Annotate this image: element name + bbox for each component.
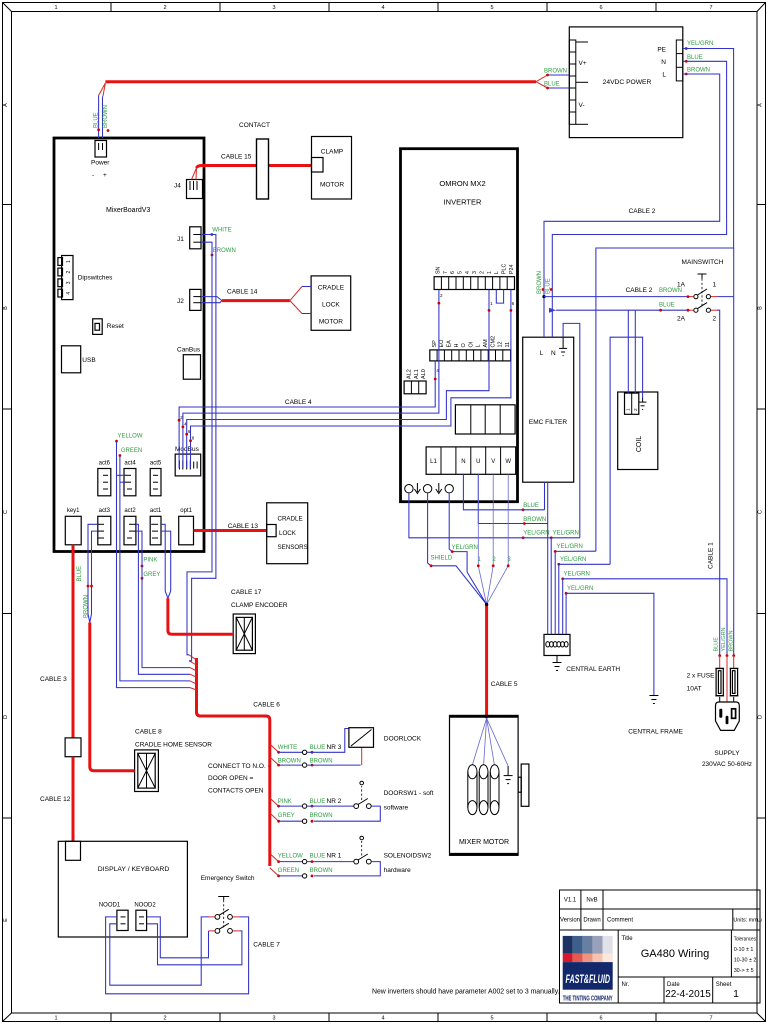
wire L brown xyxy=(544,74,720,337)
svg-text:FAST&FLUID: FAST&FLUID xyxy=(566,972,611,986)
svg-text:YEL/GRN: YEL/GRN xyxy=(553,531,579,537)
doorlock xyxy=(349,728,422,748)
svg-text:1: 1 xyxy=(733,989,739,1000)
svg-text:Version: Version xyxy=(560,918,580,924)
svg-text:BROWN: BROWN xyxy=(103,105,109,128)
svg-text:L: L xyxy=(540,350,544,357)
svg-text:C: C xyxy=(758,510,764,514)
svg-text:CanBus: CanBus xyxy=(177,347,201,354)
svg-text:SN: SN xyxy=(436,266,442,274)
svg-text:BROWN: BROWN xyxy=(310,813,333,819)
svg-text:B: B xyxy=(758,306,764,310)
svg-text:4: 4 xyxy=(381,1016,384,1022)
svg-text:NR 3: NR 3 xyxy=(327,744,342,751)
emc ground loop xyxy=(563,323,580,537)
svg-text:BLUE: BLUE xyxy=(77,566,83,582)
svg-text:1: 1 xyxy=(487,271,493,274)
svg-text:MOTOR: MOTOR xyxy=(320,182,344,189)
svg-text:CENTRAL EARTH: CENTRAL EARTH xyxy=(566,666,620,673)
svg-text:DOOR OPEN =: DOOR OPEN = xyxy=(208,775,254,782)
svg-text:P24: P24 xyxy=(509,265,515,274)
svg-text:4: 4 xyxy=(66,292,72,295)
tiny pin number labels xyxy=(180,293,515,441)
svg-text:GREY: GREY xyxy=(278,813,295,819)
svg-text:BROWN: BROWN xyxy=(659,288,682,294)
wire nood1 pin2 to pole1 left xyxy=(110,917,209,985)
brown U wire xyxy=(478,474,547,523)
inverter bottom wires xyxy=(409,474,551,606)
svg-text:2: 2 xyxy=(480,271,486,274)
svg-text:act3: act3 xyxy=(99,508,111,514)
svg-text:BROWN: BROWN xyxy=(728,630,734,651)
connector J2 xyxy=(177,289,201,310)
svg-text:YEL/GRN: YEL/GRN xyxy=(557,544,583,550)
svg-text:30-> ± 5: 30-> ± 5 xyxy=(734,968,754,974)
connector CanBus xyxy=(177,347,201,380)
doorlock row NR 3 xyxy=(277,729,362,768)
svg-text:E: E xyxy=(3,918,9,922)
svg-text:Title: Title xyxy=(622,936,634,942)
inverter U2 OMRON MX2 xyxy=(401,149,518,502)
svg-text:2: 2 xyxy=(163,5,166,11)
wire nood1 pin1 to pole1 right xyxy=(106,917,249,994)
svg-text:BROWN: BROWN xyxy=(278,759,301,765)
wire 2 xyxy=(183,290,439,469)
svg-text:PE: PE xyxy=(657,47,666,54)
board bottom edge cross wires top stubs xyxy=(150,523,152,525)
connector act3 xyxy=(98,508,111,545)
svg-text:A: A xyxy=(758,103,764,107)
svg-text:Dipswitches: Dipswitches xyxy=(78,275,113,282)
svg-text:DOORSW1 - soft: DOORSW1 - soft xyxy=(384,790,434,797)
inverter second terminal row xyxy=(430,336,511,361)
mixer board U1 MixerBoardV3 xyxy=(54,138,204,552)
svg-text:SHIELD: SHIELD xyxy=(431,556,453,562)
cable 2 labels xyxy=(629,208,656,215)
svg-text:YELLOW: YELLOW xyxy=(118,434,143,440)
side ruler ticks xyxy=(3,204,12,206)
svg-text:A: A xyxy=(3,103,9,107)
svg-text:J1: J1 xyxy=(177,236,184,243)
svg-text:Units: mm: Units: mm xyxy=(733,918,758,924)
svg-text:1: 1 xyxy=(54,1016,57,1022)
svg-text:MIXER MOTOR: MIXER MOTOR xyxy=(459,839,509,846)
mixer motor xyxy=(450,715,529,855)
svg-text:act1: act1 xyxy=(150,508,162,514)
cable 4 modbus-inverter wires xyxy=(178,290,513,469)
svg-text:GA480 Wiring: GA480 Wiring xyxy=(641,948,709,960)
main red 24v cable xyxy=(105,69,569,90)
svg-text:10-30 ± 2: 10-30 ± 2 xyxy=(734,958,757,964)
clamp encoder xyxy=(233,614,255,654)
fuse 1 xyxy=(716,669,723,696)
svg-text:24VDC POWER: 24VDC POWER xyxy=(603,79,652,86)
wire brown to mainswitch pole1 xyxy=(542,248,733,298)
svg-text:YEL/GRN: YEL/GRN xyxy=(523,531,549,537)
svg-text:D: D xyxy=(758,715,764,719)
central earth xyxy=(544,634,620,673)
svg-text:Comment: Comment xyxy=(607,918,633,924)
emergency switch xyxy=(201,875,255,933)
doorsw1 row NR 2 xyxy=(277,781,433,823)
svg-text:BLUE: BLUE xyxy=(94,112,100,128)
svg-text:V+: V+ xyxy=(579,60,587,67)
cable 15 xyxy=(192,154,312,180)
wire nood2 pin1 to pole2 left xyxy=(147,917,209,958)
svg-text:opt1: opt1 xyxy=(180,508,192,514)
svg-text:CABLE 12: CABLE 12 xyxy=(40,796,71,803)
svg-text:Drawn: Drawn xyxy=(583,918,600,924)
svg-text:0-10 ± 1: 0-10 ± 1 xyxy=(734,947,754,953)
svg-text:N: N xyxy=(551,350,556,357)
svg-text:act4: act4 xyxy=(124,461,136,467)
svg-text:BROWN: BROWN xyxy=(544,69,567,75)
svg-text:YELLOW: YELLOW xyxy=(278,854,303,860)
svg-text:AL0: AL0 xyxy=(421,369,427,379)
svg-text:BLUE: BLUE xyxy=(544,82,560,88)
svg-text:V-: V- xyxy=(579,102,585,109)
wire 4 xyxy=(191,290,511,469)
cable 7 xyxy=(106,917,281,994)
note text xyxy=(372,989,560,996)
svg-text:CABLE 3: CABLE 3 xyxy=(40,676,67,683)
connector J1 xyxy=(177,227,201,249)
svg-text:11: 11 xyxy=(505,342,511,348)
svg-text:10AT: 10AT xyxy=(687,686,702,693)
act3 wires to home sensor cable xyxy=(77,524,98,622)
svg-text:O: O xyxy=(461,343,467,348)
svg-text:BROWN: BROWN xyxy=(523,517,546,523)
svg-text:6: 6 xyxy=(450,271,456,274)
svg-text:USB: USB xyxy=(82,357,95,364)
contact element xyxy=(239,122,270,199)
svg-text:Date: Date xyxy=(667,982,680,988)
svg-text:DISPLAY / KEYBOARD: DISPLAY / KEYBOARD xyxy=(98,866,170,873)
clamp motor xyxy=(312,137,352,200)
svg-text:J2: J2 xyxy=(177,298,184,305)
svg-text:230VAC 50-60Hz: 230VAC 50-60Hz xyxy=(702,761,752,768)
svg-text:CABLE 2: CABLE 2 xyxy=(626,287,653,294)
svg-text:act2: act2 xyxy=(124,508,136,514)
cable 13 to cradle lock sensors xyxy=(194,523,268,531)
svg-text:CONNECT TO N.O. =: CONNECT TO N.O. = xyxy=(208,763,272,770)
svg-text:B: B xyxy=(3,306,9,310)
svg-text:Sheet: Sheet xyxy=(716,982,732,988)
yel/grn from gnd circle1 xyxy=(409,493,551,538)
svg-text:YEL/GRN: YEL/GRN xyxy=(687,41,713,47)
svg-text:EA: EA xyxy=(447,340,453,348)
24vdc power supply xyxy=(569,27,683,138)
svg-text:3: 3 xyxy=(66,281,72,284)
U V W wires to cable5 xyxy=(487,474,494,604)
svg-text:CENTRAL FRAME: CENTRAL FRAME xyxy=(628,729,683,736)
svg-text:BLUE: BLUE xyxy=(545,278,551,294)
svg-text:1: 1 xyxy=(66,260,72,263)
svg-text:CABLE 4: CABLE 4 xyxy=(285,399,312,406)
wire PE yel/grn xyxy=(596,49,734,552)
red cable to clamp encoder xyxy=(168,598,233,634)
svg-text:D: D xyxy=(3,715,9,719)
svg-text:WHITE: WHITE xyxy=(278,745,297,751)
svg-text:5: 5 xyxy=(490,5,493,11)
cable 12 label xyxy=(40,796,71,803)
svg-text:V1.1: V1.1 xyxy=(564,898,577,904)
svg-text:L: L xyxy=(494,271,500,274)
svg-text:AM: AM xyxy=(483,339,489,348)
svg-text:CLAMP: CLAMP xyxy=(321,149,343,156)
shield wire xyxy=(428,493,487,605)
svg-text:EMC FILTER: EMC FILTER xyxy=(529,419,567,426)
svg-text:W: W xyxy=(505,459,511,465)
svg-text:SOLENOIDSW2: SOLENOIDSW2 xyxy=(384,853,432,860)
svg-text:EO: EO xyxy=(439,339,445,348)
svg-text:NvB: NvB xyxy=(586,898,597,904)
svg-text:LOCK: LOCK xyxy=(322,302,340,309)
connector act4 xyxy=(124,461,136,496)
connector ModBus xyxy=(175,446,201,476)
top ruler ticks xyxy=(110,3,112,12)
svg-text:NR 2: NR 2 xyxy=(327,798,342,805)
svg-text:L: L xyxy=(476,344,482,347)
svg-text:INVERTER: INVERTER xyxy=(444,198,482,207)
svg-text:MAINSWITCH: MAINSWITCH xyxy=(682,259,724,266)
svg-text:GREY: GREY xyxy=(143,572,160,578)
svg-text:THE TINTING COMPANY: THE TINTING COMPANY xyxy=(563,994,613,1003)
inverter ground circles xyxy=(405,483,454,494)
svg-text:CABLE 14: CABLE 14 xyxy=(227,289,258,296)
connector act6 xyxy=(98,461,111,496)
svg-text:5: 5 xyxy=(458,271,464,274)
cable 3 label xyxy=(40,676,67,683)
connector key1 xyxy=(65,508,81,545)
mainswitch xyxy=(677,259,724,323)
svg-text:NOOD2: NOOD2 xyxy=(134,903,156,909)
connector Power xyxy=(91,141,110,180)
red cable to cradle home sensor xyxy=(90,623,135,771)
svg-text:CRADLE: CRADLE xyxy=(318,285,345,292)
cable 6 red routing xyxy=(189,655,280,876)
svg-text:YEL/GRN: YEL/GRN xyxy=(560,557,586,563)
svg-text:4: 4 xyxy=(381,5,384,11)
svg-text:Nr.: Nr. xyxy=(622,982,630,988)
wire j2 to cable14 xyxy=(201,297,222,303)
svg-text:CRADLE HOME SENSOR: CRADLE HOME SENSOR xyxy=(135,742,212,749)
svg-text:1: 1 xyxy=(626,408,632,411)
svg-text:CABLE 6: CABLE 6 xyxy=(253,702,280,709)
svg-text:CABLE 13: CABLE 13 xyxy=(228,523,259,530)
yel/grn fan wires xyxy=(522,482,727,695)
svg-text:CRADLE: CRADLE xyxy=(278,516,303,523)
svg-text:-: - xyxy=(92,172,94,179)
svg-text:2: 2 xyxy=(633,408,639,411)
svg-text:2A: 2A xyxy=(677,316,686,323)
svg-text:1: 1 xyxy=(713,282,717,289)
title block xyxy=(560,890,761,1003)
svg-text:software: software xyxy=(384,805,409,812)
svg-text:BLUE: BLUE xyxy=(523,503,539,509)
bottom ruler ticks xyxy=(110,1013,112,1022)
svg-text:2: 2 xyxy=(163,1016,166,1022)
svg-text:C: C xyxy=(3,510,9,514)
wire blue to mainswitch pole2 xyxy=(549,297,734,656)
svg-text:CONTACTS OPEN: CONTACTS OPEN xyxy=(208,788,264,795)
svg-text:PINK: PINK xyxy=(278,799,292,805)
svg-text:CABLE 1: CABLE 1 xyxy=(708,542,715,569)
plug xyxy=(716,702,740,730)
svg-text:act6: act6 xyxy=(99,461,111,467)
cradle lock sensors xyxy=(267,503,308,564)
connect-to note xyxy=(208,763,272,795)
svg-text:YEL/GRN: YEL/GRN xyxy=(721,627,727,651)
svg-text:YEL/GRN: YEL/GRN xyxy=(567,586,593,592)
svg-text:AL1: AL1 xyxy=(414,369,420,379)
cable 17 clamp encoder xyxy=(231,589,288,609)
svg-text:CABLE 5: CABLE 5 xyxy=(491,681,518,688)
svg-text:OMRON MX2: OMRON MX2 xyxy=(439,179,485,188)
svg-text:SP: SP xyxy=(432,340,438,348)
connector act5 xyxy=(150,461,162,496)
svg-text:V: V xyxy=(491,459,495,465)
svg-text:3: 3 xyxy=(272,5,275,11)
svg-text:Power: Power xyxy=(91,160,110,167)
svg-text:U: U xyxy=(476,459,480,465)
svg-text:CABLE 2: CABLE 2 xyxy=(629,208,656,215)
svg-text:WHITE: WHITE xyxy=(212,228,231,234)
svg-text:BLUE: BLUE xyxy=(310,799,326,805)
svg-text:hardware: hardware xyxy=(384,867,411,874)
svg-text:3: 3 xyxy=(472,271,478,274)
connector opt1 xyxy=(179,508,194,545)
cable 1, fuses and supply xyxy=(687,542,752,768)
logo fast&fluid xyxy=(563,936,613,1003)
svg-text:Reset: Reset xyxy=(107,323,124,330)
act2 pink/grey wires xyxy=(136,524,190,674)
svg-text:BLUE: BLUE xyxy=(687,55,703,61)
svg-text:BROWN: BROWN xyxy=(310,759,333,765)
svg-text:Emergency Switch: Emergency Switch xyxy=(201,875,255,882)
svg-text:GREEN: GREEN xyxy=(278,868,299,874)
svg-text:act5: act5 xyxy=(150,461,162,467)
wire j1 white (s-route to cable6) xyxy=(189,235,216,661)
emc filter xyxy=(523,337,574,482)
svg-text:L1: L1 xyxy=(430,459,437,465)
svg-text:YEL/GRN: YEL/GRN xyxy=(452,545,478,551)
yellow/green wires to act4 xyxy=(115,434,190,688)
svg-text:N: N xyxy=(661,59,666,66)
svg-text:CONTACT: CONTACT xyxy=(239,122,270,129)
reset button xyxy=(93,319,124,335)
central frame ground xyxy=(628,696,683,736)
wire 3 xyxy=(187,290,489,469)
blue N wire xyxy=(463,474,544,510)
act1 wires to clamp encoder cable xyxy=(161,524,171,598)
svg-text:N: N xyxy=(461,459,465,465)
svg-text:CABLE 15: CABLE 15 xyxy=(221,154,252,161)
coil wires xyxy=(610,310,643,564)
svg-text:7: 7 xyxy=(443,271,449,274)
svg-text:22-4-2015: 22-4-2015 xyxy=(665,989,711,1000)
svg-text:COIL: COIL xyxy=(636,436,643,452)
svg-text:LOCK: LOCK xyxy=(279,530,297,537)
connector act1 xyxy=(150,508,162,545)
cradle home sensor xyxy=(135,750,159,792)
svg-text:key1: key1 xyxy=(67,508,80,514)
inverter top terminal row xyxy=(434,264,515,290)
coil xyxy=(618,392,658,470)
svg-text:SUPPLY: SUPPLY xyxy=(714,750,740,757)
connector J4 xyxy=(174,180,203,199)
wire N blue xyxy=(552,61,726,296)
svg-text:12: 12 xyxy=(498,341,504,347)
svg-text:2: 2 xyxy=(713,316,717,323)
inverter AL row xyxy=(404,369,427,394)
svg-text:CABLE 8: CABLE 8 xyxy=(135,729,162,736)
svg-text:Tolerances:: Tolerances: xyxy=(734,937,758,943)
cable 8 cradle home sensor xyxy=(135,729,212,749)
svg-text:H: H xyxy=(454,344,460,348)
inverter L-PLC jumper xyxy=(496,290,503,304)
svg-text:BLUE: BLUE xyxy=(659,302,675,308)
svg-text:CABLE 7: CABLE 7 xyxy=(253,942,280,949)
svg-text:7: 7 xyxy=(709,1016,712,1022)
psu right wires (PE N L) xyxy=(544,41,734,551)
svg-text:GREEN: GREEN xyxy=(121,448,142,454)
svg-text:CM2: CM2 xyxy=(490,336,496,348)
yel/grn wire 2 xyxy=(449,493,486,605)
wire 1 xyxy=(179,361,435,468)
svg-text:L: L xyxy=(662,72,666,79)
svg-text:MixerBoardV3: MixerBoardV3 xyxy=(106,207,150,214)
svg-text:+: + xyxy=(103,172,107,179)
display / keyboard xyxy=(58,841,187,937)
svg-text:CABLE 17: CABLE 17 xyxy=(231,589,262,596)
svg-text:NOOD1: NOOD1 xyxy=(99,903,121,909)
connector act2 xyxy=(124,508,136,545)
svg-text:6: 6 xyxy=(599,1016,602,1022)
svg-text:MOTOR: MOTOR xyxy=(319,319,343,326)
svg-text:5: 5 xyxy=(490,1016,493,1022)
svg-text:OI: OI xyxy=(468,341,474,347)
svg-text:J4: J4 xyxy=(174,183,181,190)
svg-text:AL2: AL2 xyxy=(407,369,413,379)
inverter bottom row L1 N U V W xyxy=(426,447,516,474)
j1 white/brown labels xyxy=(210,228,235,257)
wire nood2 pin2 to pole2 right xyxy=(147,924,242,965)
inverter blank row xyxy=(455,405,515,434)
svg-text:BLUE: BLUE xyxy=(714,637,720,652)
cable 14 xyxy=(222,287,302,314)
svg-text:7: 7 xyxy=(709,5,712,11)
svg-text:BROWN: BROWN xyxy=(537,271,543,294)
svg-text:4: 4 xyxy=(465,271,471,274)
svg-text:YEL/GRN: YEL/GRN xyxy=(564,572,590,578)
svg-text:2 x FUSE: 2 x FUSE xyxy=(687,673,715,680)
svg-text:BROWN: BROWN xyxy=(310,868,333,874)
svg-text:PLC: PLC xyxy=(501,264,507,274)
dipswitches xyxy=(58,256,113,300)
svg-text:SENSORS: SENSORS xyxy=(278,544,308,551)
earth connector drops xyxy=(547,482,549,634)
horizontals xyxy=(551,537,580,539)
cable 5 xyxy=(487,604,518,718)
key1 red cable with inline connector xyxy=(65,545,81,842)
red fork to mixerboard power xyxy=(94,83,110,138)
svg-text:DOORLOCK: DOORLOCK xyxy=(384,736,422,743)
svg-text:NR 1: NR 1 xyxy=(327,853,342,860)
svg-text:CLAMP ENCODER: CLAMP ENCODER xyxy=(231,602,288,609)
svg-text:New inverters should have para: New inverters should have parameter A002… xyxy=(372,989,560,996)
ground in motor xyxy=(504,766,513,784)
